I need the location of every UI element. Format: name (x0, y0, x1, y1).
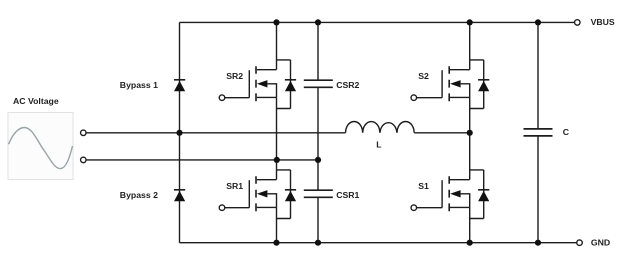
diode Bypass 1 (174, 80, 185, 92)
svg-text:SR1: SR1 (226, 181, 243, 191)
label C (563, 127, 570, 137)
svg-text:S1: S1 (418, 181, 429, 191)
wire AC line 2 (86, 159, 318, 161)
wire AC line 1 left segment (86, 132, 345, 134)
AC terminal 2 (81, 157, 87, 163)
svg-text:GND: GND (591, 237, 610, 247)
wire top rail VBUS (180, 21, 575, 23)
AC terminal 1 (81, 130, 87, 136)
junction bottom rail / C leg (535, 240, 541, 246)
label Bypass 2 (120, 190, 158, 200)
junction AC line 1 / S leg (467, 130, 473, 136)
label GND (591, 237, 610, 247)
capacitor CSR2 (304, 22, 333, 160)
gate terminal S2 (411, 95, 417, 101)
AC source box (8, 113, 73, 180)
svg-text:SR2: SR2 (226, 71, 243, 81)
label SR1 (226, 181, 243, 191)
junction top rail / C leg (535, 19, 541, 25)
junction AC line 1 / bypass leg (176, 130, 182, 136)
label CSR1 (336, 190, 359, 200)
VBUS terminal (575, 20, 581, 26)
inductor L (346, 122, 415, 133)
junction top rail / CSR leg (315, 19, 321, 25)
svg-text:Bypass 1: Bypass 1 (120, 80, 158, 90)
svg-text:Bypass 2: Bypass 2 (120, 190, 158, 200)
gate terminal SR2 (219, 95, 225, 101)
diode SR2 body (277, 60, 297, 109)
label VBUS (591, 17, 615, 27)
label L (376, 139, 382, 149)
diode S1 body (470, 170, 490, 219)
svg-text:AC Voltage: AC Voltage (13, 96, 59, 106)
junction bottom rail / S leg (467, 240, 473, 246)
svg-text:C: C (563, 127, 570, 137)
transistor S2 (417, 22, 470, 179)
GND terminal (577, 240, 583, 246)
transistor SR1 (225, 176, 277, 242)
label S2 (418, 71, 429, 81)
svg-text:CSR1: CSR1 (336, 190, 359, 200)
svg-text:VBUS: VBUS (591, 17, 615, 27)
diode S2 body (470, 60, 490, 109)
gate terminal SR1 (219, 205, 225, 211)
transistor S1 (417, 176, 470, 242)
wire AC line 1 right segment to S-leg midpoint (414, 132, 470, 134)
label S1 (418, 181, 429, 191)
svg-text:CSR2: CSR2 (336, 80, 359, 90)
junction bottom rail / CSR leg (315, 240, 321, 246)
capacitor CSR1 (304, 160, 333, 243)
svg-text:S2: S2 (418, 71, 429, 81)
wire bottom rail GND (180, 242, 577, 244)
label AC Voltage (13, 96, 59, 106)
diode Bypass 2 (174, 190, 185, 202)
svg-text:L: L (376, 139, 382, 149)
junction AC line 2 / SR leg (274, 157, 280, 163)
diode SR1 body (277, 170, 297, 219)
junction bottom rail / SR leg (273, 240, 279, 246)
label SR2 (226, 71, 243, 81)
gate terminal S1 (411, 205, 417, 211)
label Bypass 1 (120, 80, 158, 90)
capacitor C (524, 22, 553, 242)
junction AC line 2 / CSR leg (315, 157, 321, 163)
junction top rail / SR leg (176, 19, 541, 245)
label CSR2 (336, 80, 359, 90)
transistor SR2 (225, 22, 277, 179)
wire bypass leg vertical (179, 22, 181, 242)
junction top rail / S leg (467, 19, 473, 25)
